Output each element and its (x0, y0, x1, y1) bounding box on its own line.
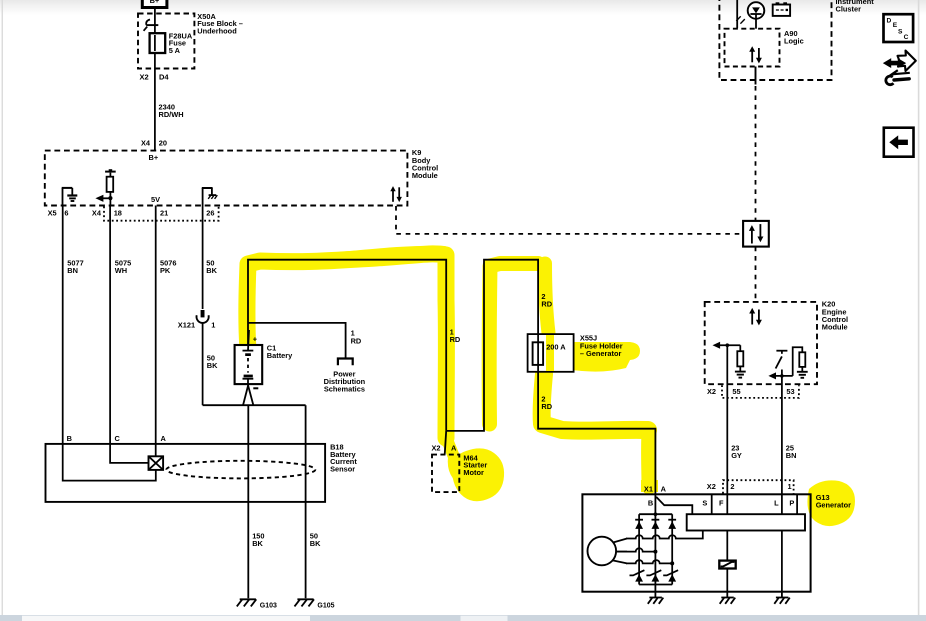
svg-text:BK: BK (252, 539, 263, 548)
svg-text:55: 55 (732, 387, 740, 396)
wire label 2340 RD/WH (159, 103, 184, 120)
BCM pin 6 internal ground (62, 188, 78, 206)
rectifier columns (638, 514, 640, 584)
svg-text:Cluster: Cluster (836, 5, 862, 14)
svg-text:5V: 5V (151, 195, 160, 204)
svg-text:53: 53 (786, 387, 794, 396)
BCM pin 26 internal chassis ground (202, 188, 218, 206)
svg-text:A: A (161, 434, 167, 443)
M64 starter motor dashed box (432, 455, 459, 493)
fuse F28UA (150, 33, 166, 53)
highlight: M64 starter motor label blob (446, 437, 466, 481)
brush leads (613, 539, 627, 543)
wire: right cable down through sensor (305, 405, 307, 598)
fuse block X50A dashed box (138, 14, 194, 69)
svg-text:Module: Module (412, 171, 438, 180)
ECM pin labels (707, 387, 795, 396)
bus bar box (top, cut off) (142, 0, 167, 8)
wire: battery positive riser and feed to starter (248, 260, 446, 431)
wire: battery negative with fork (247, 384, 249, 386)
svg-text:RD/WH: RD/WH (159, 110, 184, 119)
lamp emission ticks (736, 16, 740, 21)
stator winding phase 1 (626, 531, 703, 539)
B18 label (330, 443, 357, 474)
svg-text:Module: Module (822, 323, 848, 332)
wire: battery cable down through sensor (247, 405, 249, 598)
BCM X4 connector dotted outline (104, 207, 219, 221)
rectifier top rail (639, 513, 672, 515)
BCM pin 18 arrow (103, 197, 111, 199)
svg-text:Schematics: Schematics (324, 385, 365, 394)
wire: fuse to generator (538, 372, 655, 495)
svg-text:WH: WH (115, 266, 127, 275)
svg-text:RD: RD (541, 300, 552, 309)
BCM bidirectional arrows (390, 186, 402, 202)
wire: lamp to A90 logic (755, 19, 757, 29)
wire: fuse to BCM (154, 53, 156, 151)
wire 25 BN (pin 53 to generator L) (781, 370, 783, 495)
serial data dashed line to ECM (755, 247, 757, 302)
G13 label (816, 493, 851, 510)
serial data dashed line down (755, 86, 757, 221)
BCM pin labels (48, 209, 215, 218)
bottom scrollbar track (0, 615, 926, 621)
svg-text:B: B (648, 498, 653, 507)
wire: ground bus (203, 404, 306, 406)
svg-text:X2: X2 (140, 73, 149, 82)
svg-text:+: + (253, 334, 258, 343)
wire labels (731, 444, 796, 461)
svg-text:21: 21 (160, 209, 168, 218)
A90 logic dashed box (725, 29, 780, 67)
svg-text:RD: RD (541, 402, 552, 411)
X50A label (197, 12, 243, 35)
sidebar label instrument cluster (836, 0, 875, 14)
wire 5076 PK (pin 21 to sensor A) (155, 206, 157, 444)
highlight: battery positive to starter wire (247, 251, 649, 487)
wire: jog to M64 connector (445, 431, 447, 455)
wire label 50 BK (207, 353, 218, 370)
svg-text:6: 6 (64, 209, 68, 218)
svg-text:BN: BN (67, 266, 78, 275)
svg-text:18: 18 (114, 209, 122, 218)
wire: A90 to cluster edge (755, 67, 757, 85)
highlighter stroke through fuse holder (546, 335, 554, 371)
wire through fuse holder (537, 334, 539, 372)
left page edge line (2, 0, 3, 615)
wire label 1 RD (starter feed) (450, 327, 461, 344)
M64 starter motor connector labels X2 / A (432, 444, 458, 453)
ground G105 (295, 599, 315, 606)
svg-text:P: P (789, 498, 794, 507)
A90 bidirectional arrows (749, 46, 762, 63)
wire L through regulator (781, 494, 783, 591)
svg-text:Motor: Motor (463, 468, 484, 477)
svg-text:X121: X121 (178, 320, 195, 329)
wire label 1 RD (battery tap) (351, 329, 362, 346)
ECM pin 55 sense arrow (719, 344, 740, 346)
svg-text:GY: GY (731, 451, 742, 460)
top gradient band (0, 0, 926, 15)
svg-text:X2: X2 (707, 482, 716, 491)
svg-text:20: 20 (159, 138, 167, 147)
wire 5077 BN (pin 6 to sensor B) (62, 206, 64, 444)
svg-text:PK: PK (160, 266, 171, 275)
K20 label (822, 300, 848, 332)
svg-text:L: L (774, 498, 779, 507)
svg-text:G105: G105 (317, 602, 334, 609)
generator ground F (720, 592, 736, 604)
svg-text:B+: B+ (149, 153, 159, 162)
ECM pin 53 arrow (775, 375, 793, 377)
B18 battery current sensor box (46, 444, 326, 502)
svg-text:Generator: Generator (816, 501, 851, 510)
highlight: G13 generator label blob (807, 480, 855, 526)
X55J label (580, 334, 623, 358)
wire B to regulator (656, 497, 692, 514)
svg-text:BK: BK (310, 539, 321, 548)
wire B terminal down (654, 494, 656, 591)
wire labels (67, 258, 217, 275)
svg-text:RD: RD (351, 337, 362, 346)
generator ground B (648, 592, 664, 604)
svg-text:Battery: Battery (267, 351, 293, 360)
ground G103 (237, 599, 256, 606)
wire stub inside cluster (736, 0, 738, 28)
rectifier bottom rail (639, 584, 672, 586)
off-page connector: power distribution (338, 359, 353, 366)
battery telltale icon (776, 2, 780, 4)
svg-text:BK: BK (206, 266, 217, 275)
instrument cluster dashed box (cut off at top) (719, 0, 831, 80)
node: battery tap to power distribution (248, 323, 346, 359)
highlight: X1 label at generator (641, 480, 658, 492)
svg-text:Underhood: Underhood (197, 26, 237, 35)
data exchange / tools icon (884, 51, 916, 85)
terminal stubs S and P (711, 494, 713, 514)
sensor internal wiring (110, 444, 148, 463)
wire F through regulator (726, 494, 728, 591)
ECM switch (pin 53) (776, 350, 787, 352)
svg-text:X4: X4 (141, 138, 151, 147)
svg-text:BK: BK (207, 361, 218, 370)
svg-text:G103: G103 (260, 602, 277, 609)
svg-text:X1: X1 (644, 484, 653, 493)
svg-text:C: C (115, 434, 121, 443)
G13 generator box (582, 494, 810, 591)
svg-text:D: D (887, 17, 892, 24)
wire X121 to battery junction (202, 323, 204, 405)
svg-text:B+: B+ (150, 0, 160, 5)
wire label 2 RD (below fuse) (541, 394, 552, 411)
svg-text:200 A: 200 A (546, 343, 566, 352)
BCM pin 18 internal resistor (105, 172, 116, 206)
connector X121 (197, 310, 209, 323)
K9 label (412, 148, 438, 180)
generator X1 / A pin labels (644, 484, 667, 493)
svg-text:D4: D4 (159, 73, 169, 82)
svg-text:5 A: 5 A (169, 46, 181, 55)
K20 engine control module dashed box (705, 302, 817, 384)
svg-text:X2: X2 (432, 444, 441, 453)
svg-text:F: F (719, 498, 724, 507)
svg-text:A: A (661, 484, 667, 493)
svg-text:Sensor: Sensor (330, 465, 355, 474)
voltage regulator (687, 514, 805, 530)
generator ground L (774, 592, 790, 604)
charge indicator lamp (748, 2, 765, 19)
zener diode block (719, 561, 735, 569)
ECM pull-up resistor (pin 53) (793, 347, 803, 376)
wire labels 150 BK / 50 BK (252, 532, 321, 549)
wire: crossover to 2nd riser (446, 260, 538, 431)
lower diodes with bent gate bars (630, 570, 679, 581)
junction dot pin 18 (108, 196, 112, 200)
svg-text:BN: BN (786, 451, 797, 460)
label: power distribution schematics (324, 369, 366, 393)
pin labels X4 / 20 (141, 138, 167, 147)
svg-text:B: B (67, 434, 72, 443)
svg-text:Logic: Logic (784, 37, 804, 46)
stator winding phase 3 (626, 560, 672, 563)
svg-text:S: S (898, 28, 903, 35)
serial data dashed line from BCM (396, 206, 742, 234)
connector labels X2 / D4 (140, 73, 170, 82)
rotor (588, 537, 617, 566)
svg-text:2: 2 (730, 482, 734, 491)
wire 50 BK (pin 26 to X121) (202, 206, 204, 310)
wire 23 GY (pin 55 to generator F) (726, 345, 728, 494)
ECM X2 connector dotted outline (722, 385, 799, 398)
back arrow icon (884, 128, 914, 157)
sensor coil ellipse (166, 461, 315, 479)
generator terminal letters (648, 498, 795, 507)
sensing element (149, 456, 164, 470)
svg-text:RD: RD (450, 335, 461, 344)
svg-text:E: E (893, 22, 898, 29)
DESC icon (884, 14, 914, 42)
generator X2 connector dotted outline (723, 480, 794, 493)
wire: bus to fuse (154, 8, 156, 34)
svg-text:1: 1 (211, 320, 215, 329)
wire 5075 WH (pin 18 to sensor C) (109, 206, 111, 444)
svg-text:– Generator: – Generator (580, 349, 622, 358)
highlight: X55J fuse holder label blob (556, 342, 641, 372)
svg-text:C: C (904, 34, 909, 41)
M64 label (463, 453, 487, 477)
top diodes (635, 520, 676, 529)
svg-text:1: 1 (788, 482, 792, 491)
svg-text:X4: X4 (92, 209, 102, 218)
K9 body control module dashed box (45, 151, 408, 206)
fuse 200 A (533, 342, 544, 365)
stator winding phase 2 (616, 548, 655, 551)
battery negative mark (253, 387, 258, 389)
X55J fuse holder box (528, 334, 574, 372)
svg-text:X5: X5 (48, 209, 57, 218)
svg-text:S: S (702, 498, 707, 507)
data link connector box (743, 221, 769, 247)
sensor pin labels (67, 434, 167, 443)
svg-text:A: A (451, 444, 457, 453)
svg-text:26: 26 (206, 209, 214, 218)
svg-text:X2: X2 (707, 387, 716, 396)
ECM pull-up resistor (pin 55) (739, 345, 741, 351)
A90 label (784, 29, 804, 46)
wire label 2 RD (above fuse) (541, 292, 552, 309)
ECM bidirectional arrows (749, 308, 762, 326)
bus clip symbol (144, 20, 159, 31)
right sidebar divider line (918, 0, 920, 615)
